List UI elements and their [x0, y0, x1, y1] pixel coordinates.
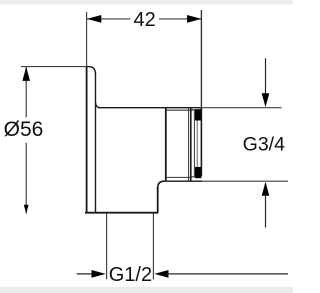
thread inner line	[196, 120, 198, 168]
union nut right edge outer line	[190, 108, 192, 180]
dimension 42 extension line left	[86, 12, 88, 67]
arrowhead left of 42	[87, 15, 101, 23]
dimension O56 extension line (flange top extended)	[21, 66, 89, 68]
flange top edge with rounded front corner	[87, 67, 96, 75]
svg-text:Ø56: Ø56	[4, 118, 44, 141]
flange back edge (wall side)	[86, 66, 88, 213]
fitting bottom edge / G3/4 lower extension line	[164, 180, 203, 182]
svg-text:42: 42	[133, 9, 155, 31]
G3/4 lower arrow (up)	[262, 182, 270, 196]
union nut right edge inner line	[188, 108, 190, 180]
arrowhead right of 42	[187, 15, 201, 23]
top gray strip	[0, 0, 293, 5]
body top edge / G3/4 upper extension line	[98, 107, 202, 109]
stub end face	[200, 108, 202, 177]
union nut bottom chamfer line	[166, 176, 192, 178]
G3/4 upper arrow (down)	[265, 58, 267, 96]
arrowhead down of O56	[24, 205, 29, 214]
union nut top chamfer line	[166, 109, 193, 111]
thread dark band top	[195, 109, 201, 120]
svg-text:G3/4: G3/4	[243, 133, 285, 155]
body right shoulder curve	[158, 181, 164, 188]
dimension O56 line	[25, 67, 27, 117]
svg-text:G1/2: G1/2	[109, 264, 152, 286]
G1/2 extension line left	[106, 214, 108, 280]
thread root line	[193, 110, 195, 177]
thread dark band bottom	[195, 167, 201, 178]
body top fillet at flange face	[96, 103, 101, 108]
body right edge	[157, 187, 159, 213]
bottom gray strip	[0, 287, 293, 293]
union nut left edge	[165, 108, 167, 181]
dimension 42 line	[87, 18, 130, 20]
G1/2 extension line right	[152, 214, 154, 280]
arrowhead up of O56	[22, 67, 30, 81]
dimension 42 extension line right	[200, 10, 202, 110]
threaded stub bottom edge	[191, 176, 196, 178]
body bottom edge	[85, 212, 158, 214]
flange face	[95, 73, 97, 213]
G1/2 right arrow (points left)	[154, 270, 168, 278]
threaded stub top edge	[191, 109, 202, 111]
G1/2 left arrow (points right)	[77, 273, 93, 275]
